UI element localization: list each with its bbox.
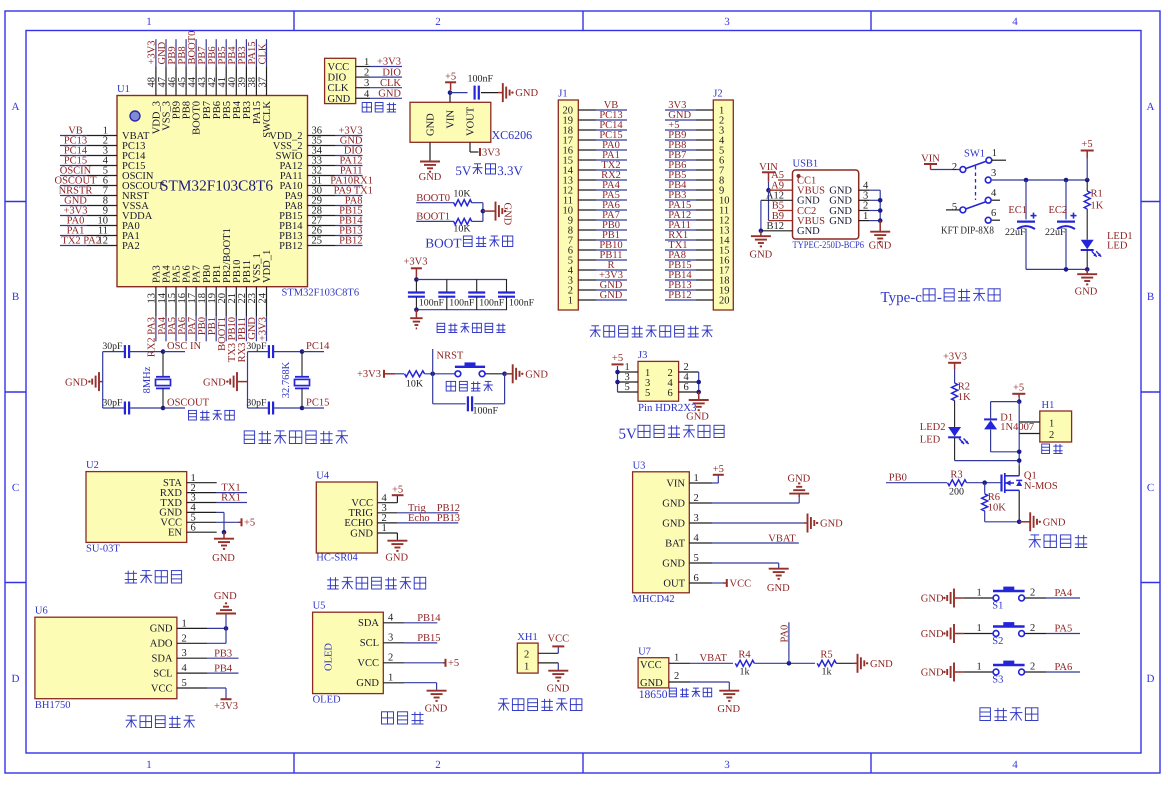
- svg-text:PA2: PA2: [122, 241, 140, 252]
- svg-text:CLK: CLK: [328, 83, 349, 94]
- svg-text:4: 4: [1012, 759, 1018, 771]
- wire LED2 to bus: [954, 438, 956, 461]
- U3 VIN to +5: [712, 482, 718, 484]
- bottom bus: [1026, 268, 1087, 270]
- U6 SDA wire: [207, 657, 239, 659]
- svg-text:1: 1: [524, 662, 529, 673]
- U3 GND3 wire: [712, 522, 804, 524]
- svg-text:GND: GND: [515, 88, 538, 99]
- U1 right pin 33 PA12: [308, 165, 336, 167]
- resistor R4 1k: [735, 660, 754, 666]
- svg-text:4: 4: [1012, 16, 1018, 28]
- svg-text:H1: H1: [1042, 400, 1055, 411]
- svg-text:10K: 10K: [988, 503, 1007, 514]
- svg-text:GND: GND: [212, 553, 235, 564]
- filter cap bus top: [416, 279, 507, 281]
- connector J3 body: [638, 361, 679, 401]
- svg-text:5V: 5V: [455, 163, 472, 178]
- H1 pins: [1019, 421, 1040, 423]
- U3 OUT wire: [712, 582, 723, 584]
- wire cap to gnd: [481, 92, 498, 94]
- module U2 SU-03T body: [86, 472, 187, 543]
- wire common: [482, 203, 484, 222]
- svg-text:1: 1: [364, 57, 369, 68]
- svg-text:C: C: [12, 482, 19, 494]
- svg-text:J1: J1: [558, 89, 567, 100]
- svg-text:1: 1: [674, 653, 679, 664]
- svg-text:4: 4: [694, 533, 700, 544]
- U3 GND2 wire: [712, 502, 799, 504]
- wire xtal left rail: [102, 352, 104, 408]
- U1 bottom pin 13 PA3: [155, 287, 157, 317]
- svg-text:2: 2: [435, 16, 441, 28]
- wire to S1: [964, 597, 993, 599]
- svg-text:XH1: XH1: [517, 632, 537, 643]
- ground (U7): [719, 690, 739, 692]
- wire Echo: [397, 522, 458, 524]
- U1 right pin 34 SWIO: [308, 155, 336, 157]
- capacitor 30pF top: [248, 351, 269, 353]
- switch SW1 KFT DIP-8X8: [960, 167, 966, 173]
- U1 top pin 39 PB3: [245, 66, 247, 95]
- U1 right pin 31 PA10: [308, 185, 336, 187]
- power port +5 (U2): [241, 518, 243, 526]
- svg-text:GND: GND: [1075, 287, 1098, 298]
- wire PA0 riser: [788, 622, 790, 663]
- svg-text:+5: +5: [392, 484, 403, 495]
- wire LED1 to bus: [1086, 250, 1088, 269]
- svg-text:GND: GND: [640, 678, 663, 689]
- svg-text:1: 1: [977, 588, 982, 599]
- svg-text:32.768K: 32.768K: [281, 361, 292, 398]
- svg-text:PA4: PA4: [1055, 588, 1073, 599]
- svg-text:PB12: PB12: [668, 290, 691, 301]
- svg-text:TX2 PA2: TX2 PA2: [61, 236, 101, 247]
- wire U2 GND pin4: [217, 511, 224, 513]
- wire to S3: [964, 671, 993, 673]
- diode D1 1N4007 branch: [991, 401, 1020, 403]
- J3 right bus: [698, 372, 700, 398]
- svg-text:2: 2: [952, 162, 957, 173]
- svg-text:PC14: PC14: [306, 341, 330, 352]
- svg-text:+5: +5: [1081, 139, 1092, 150]
- svg-text:+3V3: +3V3: [403, 257, 427, 268]
- wire B12 riser: [760, 200, 762, 231]
- svg-text:100nF: 100nF: [468, 74, 494, 85]
- U1 left pin 11 PA1: [87, 235, 117, 237]
- wire NRST: [432, 349, 434, 374]
- svg-text:R6: R6: [988, 492, 1000, 503]
- resistor R2 1K: [952, 383, 958, 401]
- ground (USB right): [879, 221, 881, 231]
- U1 top pin 42 PB6: [215, 66, 217, 95]
- U1 right pin 30 PA9: [308, 195, 336, 197]
- U1 right pin 36 VDD_2: [308, 135, 336, 137]
- svg-text:2: 2: [674, 671, 679, 682]
- U1 right pin 26 PB13: [308, 235, 336, 237]
- svg-text:3: 3: [694, 513, 699, 524]
- svg-text:ADO: ADO: [150, 639, 173, 650]
- U1 top pin 47 VSS_3: [165, 66, 167, 95]
- connector XH1 body: [517, 643, 538, 673]
- button S1: [1003, 587, 1014, 591]
- resistor R6 10K: [984, 483, 986, 494]
- caption chaoshengboceju mokuai: [327, 579, 339, 581]
- svg-text:25: 25: [312, 236, 323, 247]
- caption xinpian lvbo dianrong: [437, 323, 445, 332]
- svg-text:2: 2: [1030, 662, 1035, 673]
- svg-text:SDA: SDA: [151, 654, 172, 665]
- svg-text:3V3: 3V3: [482, 147, 500, 158]
- wire S3 to PA6: [1025, 671, 1046, 673]
- LED1: [1081, 240, 1094, 250]
- svg-text:10K: 10K: [453, 188, 471, 199]
- connector J2 body: [713, 100, 733, 310]
- wire button right: [485, 373, 505, 375]
- svg-text:1: 1: [568, 296, 573, 307]
- svg-text:22uF: 22uF: [1045, 227, 1066, 238]
- svg-text:GND: GND: [797, 226, 820, 237]
- svg-text:3.3V: 3.3V: [497, 163, 523, 178]
- svg-text:PA5: PA5: [1055, 624, 1073, 635]
- svg-text:LED2: LED2: [920, 422, 946, 433]
- svg-text:22uF: 22uF: [1005, 227, 1026, 238]
- svg-text:+3V3: +3V3: [943, 352, 967, 363]
- svg-text:GND: GND: [525, 369, 548, 380]
- svg-text:VCC: VCC: [328, 62, 350, 73]
- U1 bottom pin 14 PA4: [165, 287, 167, 317]
- capacitor 100nF filter 2: [446, 280, 448, 293]
- U4 GND drop: [396, 533, 398, 540]
- svg-text:GND: GND: [426, 113, 437, 136]
- svg-text:MHCD42: MHCD42: [633, 594, 675, 605]
- svg-text:DIO: DIO: [328, 73, 347, 84]
- resistor R1 1K: [1086, 180, 1088, 191]
- svg-text:2: 2: [1030, 588, 1035, 599]
- junction: [448, 90, 453, 95]
- svg-text:NRST: NRST: [437, 351, 464, 362]
- module U4 HC-SR04 body: [316, 482, 377, 553]
- wire VIN pin: [449, 93, 451, 103]
- svg-text:CLK: CLK: [380, 78, 401, 89]
- svg-text:1K: 1K: [1091, 201, 1104, 212]
- svg-text:100nF: 100nF: [509, 298, 535, 309]
- crystal 8MHz: [162, 352, 164, 377]
- resistor 10K (BOOT1): [454, 218, 472, 224]
- wire U2 TX1: [217, 492, 247, 494]
- svg-text:OUT: OUT: [663, 578, 685, 589]
- svg-text:GND: GND: [820, 519, 843, 530]
- junction: [414, 307, 419, 312]
- U6 ADO wire: [207, 642, 226, 644]
- svg-text:OLED: OLED: [313, 694, 341, 705]
- svg-text:SW1: SW1: [964, 149, 985, 160]
- svg-text:PC15: PC15: [306, 397, 329, 408]
- junction bottom: [300, 406, 305, 411]
- caption fuwei dianlu: [446, 381, 455, 391]
- svg-text:1: 1: [182, 618, 187, 629]
- capacitor EC1 22uF: [1025, 180, 1027, 220]
- U1 bottom pin 23 VSS_1: [255, 287, 257, 317]
- svg-text:U6: U6: [35, 606, 48, 617]
- capacitor 30pF top: [103, 351, 125, 353]
- svg-text:30pF: 30pF: [246, 397, 267, 408]
- SW1 stubs: [992, 159, 1006, 161]
- filter cap bus bottom: [416, 309, 507, 311]
- svg-text:3: 3: [364, 78, 369, 89]
- svg-text:EC1: EC1: [1008, 205, 1027, 216]
- junction +5 bus: [1017, 399, 1022, 404]
- svg-text:GND: GND: [869, 241, 892, 252]
- U1 bottom pin 17 PA7: [195, 287, 197, 317]
- caption shuchu kongzhi: [1034, 535, 1036, 548]
- holder U7 18650 body: [638, 658, 669, 688]
- module U3 MHCD42 body: [633, 472, 690, 593]
- svg-text:VDD_1: VDD_1: [262, 250, 273, 283]
- op U1 STM32F103C8T6 body: [117, 96, 308, 287]
- svg-text:D: D: [12, 673, 20, 685]
- U1 top pin 43 PB7: [205, 66, 207, 95]
- svg-text:U1: U1: [117, 84, 130, 95]
- svg-text:GND: GND: [150, 624, 173, 635]
- svg-text:PB12: PB12: [279, 241, 302, 252]
- svg-text:GND: GND: [419, 172, 442, 183]
- U1 left pin 7 NRST: [87, 195, 117, 197]
- svg-text:VIN: VIN: [666, 478, 685, 489]
- svg-text:5: 5: [952, 202, 957, 213]
- svg-text:1: 1: [863, 211, 868, 222]
- ground (U4): [387, 540, 407, 542]
- svg-text:GND: GND: [378, 89, 401, 100]
- svg-text:PB4: PB4: [214, 663, 233, 674]
- svg-text:U2: U2: [86, 460, 99, 471]
- svg-text:37: 37: [257, 77, 268, 88]
- wire U2 VCC pin5: [217, 521, 239, 523]
- U1 left pin 1 VBAT: [87, 135, 117, 137]
- LED2: [948, 427, 961, 437]
- wire U2 RX1: [217, 502, 247, 504]
- XH1 pin1 wire: [538, 662, 558, 664]
- svg-text:Echo: Echo: [408, 513, 430, 524]
- svg-text:2: 2: [1049, 430, 1054, 441]
- svg-text:U4: U4: [316, 471, 330, 482]
- junction U2 EN: [222, 530, 227, 535]
- svg-text:GND: GND: [750, 250, 773, 261]
- capacitor 100nF (reset): [467, 396, 469, 411]
- XC6206 GND pin wire: [429, 142, 431, 161]
- svg-text:100nF: 100nF: [449, 298, 475, 309]
- ground symbol: [420, 161, 440, 163]
- wire S2 to PA5: [1025, 633, 1046, 635]
- svg-text:10K: 10K: [406, 379, 424, 390]
- power port +3V3 (U6): [221, 698, 232, 700]
- ground (XH1): [548, 670, 568, 672]
- svg-text:100nF: 100nF: [479, 298, 505, 309]
- connector J1 body: [558, 100, 578, 310]
- U1 bottom pin 20 PB2/BOOT1: [225, 287, 227, 317]
- U1 top pin 41 PB5: [225, 66, 227, 95]
- wire to S2: [964, 633, 993, 635]
- U1 bottom pin 22 PB11: [245, 287, 247, 317]
- svg-text:+3V3: +3V3: [257, 317, 268, 341]
- svg-text:CLK: CLK: [257, 43, 268, 64]
- U5 VCC wire: [404, 662, 443, 664]
- svg-text:+5: +5: [612, 353, 623, 364]
- resistor 10K (reset): [405, 371, 425, 377]
- svg-text:VOUT: VOUT: [466, 106, 477, 136]
- U1 bottom pin 24 VDD_1: [266, 287, 268, 317]
- caption danpianji yinjiao waiyin paizhen: [594, 326, 596, 337]
- svg-text:VBAT: VBAT: [768, 533, 796, 544]
- svg-text:GND: GND: [829, 216, 852, 227]
- capacitor 100nF filter 4: [506, 280, 508, 293]
- capacitor 100nF (reg input): [474, 86, 476, 100]
- svg-text:1: 1: [146, 759, 152, 771]
- U1 left pin 2 PC13: [87, 145, 117, 147]
- svg-text:VCC: VCC: [548, 634, 570, 645]
- U1 top pin 48 VDD_3: [155, 66, 157, 95]
- svg-text:GND: GND: [662, 498, 685, 509]
- connector USB1 body: [793, 170, 859, 239]
- svg-text:SCL: SCL: [360, 638, 379, 649]
- svg-text:GND: GND: [921, 667, 944, 678]
- svg-text:+3V3: +3V3: [377, 57, 401, 68]
- U1 right pin 29 PA8: [308, 205, 336, 207]
- svg-text:VIN: VIN: [921, 154, 940, 165]
- svg-text:3: 3: [991, 168, 996, 179]
- connector H1 body: [1040, 411, 1072, 442]
- svg-text:PB13: PB13: [437, 513, 460, 524]
- capacitor 100nF filter 1: [415, 280, 417, 293]
- wire A9 from VIN: [766, 188, 771, 193]
- power ground bar (reset): [512, 364, 514, 383]
- svg-text:GND: GND: [717, 704, 740, 715]
- svg-text:3: 3: [388, 633, 393, 644]
- svg-text:GND: GND: [65, 377, 88, 388]
- power port +5 (U5): [445, 659, 447, 667]
- wire A5: [778, 179, 793, 181]
- svg-text:100nF: 100nF: [473, 406, 499, 417]
- svg-text:S3: S3: [992, 675, 1003, 686]
- svg-text:EC2: EC2: [1049, 205, 1068, 216]
- svg-text:VCC: VCC: [730, 578, 752, 589]
- power port 3V3: [479, 148, 481, 156]
- svg-text:2: 2: [524, 650, 529, 661]
- U6 VCC wire: [207, 687, 226, 689]
- caption danpianji zuixiao xitong: [244, 431, 254, 444]
- svg-text:PB12: PB12: [339, 236, 362, 247]
- junction: [481, 209, 486, 214]
- U1 pin1 marker dot: [130, 111, 140, 121]
- U1 top pin 44 BOOT0: [195, 66, 197, 95]
- svg-text:SU-03T: SU-03T: [86, 544, 120, 555]
- U1 right pin 28 PB15: [308, 215, 336, 217]
- svg-text:GND: GND: [356, 678, 379, 689]
- capacitor 30pF bottom: [248, 407, 269, 409]
- svg-text:PB3: PB3: [214, 648, 232, 659]
- svg-text:S1: S1: [992, 601, 1003, 612]
- svg-text:VCC: VCC: [640, 660, 662, 671]
- svg-text:2: 2: [435, 759, 441, 771]
- ground (U5): [427, 690, 447, 692]
- U6 GND wire: [207, 627, 226, 629]
- ground (USB left): [760, 231, 762, 236]
- U4 VCC riser to +5: [396, 495, 398, 503]
- U3 GND5 wire: [712, 562, 779, 564]
- svg-text:+3V3: +3V3: [214, 701, 238, 712]
- svg-text:LED: LED: [920, 435, 941, 446]
- U5 GND wire: [404, 682, 437, 684]
- power ground bar (out ctl): [1019, 521, 1030, 523]
- ground (J3): [698, 392, 700, 399]
- svg-text:8MHz: 8MHz: [142, 366, 153, 393]
- U1 top pin 37 SWCLK: [266, 66, 268, 95]
- svg-text:+5: +5: [448, 658, 459, 669]
- U1 left pin 12 PA2: [87, 245, 117, 247]
- svg-text:1: 1: [146, 16, 152, 28]
- U1 top pin 45 PB8: [185, 66, 187, 95]
- U1 left pin 9 VDDA: [87, 215, 117, 217]
- svg-text:GND: GND: [547, 684, 570, 695]
- svg-text:SWCLK: SWCLK: [262, 101, 273, 138]
- main vertical bus: [1018, 402, 1020, 466]
- svg-text:GND: GND: [870, 659, 893, 670]
- svg-text:2: 2: [388, 653, 393, 664]
- svg-text:XC6206: XC6206: [492, 128, 533, 142]
- svg-text:1: 1: [992, 148, 997, 159]
- svg-text:1: 1: [977, 662, 982, 673]
- resistor R5 1k: [817, 660, 836, 666]
- svg-text:5: 5: [182, 678, 187, 689]
- svg-text:GND: GND: [385, 553, 408, 564]
- svg-text:2: 2: [694, 493, 699, 504]
- wire S1 to PA4: [1025, 597, 1046, 599]
- power ground bar: [502, 83, 504, 102]
- U5 SDA wire: [404, 622, 437, 624]
- svg-text:30pF: 30pF: [246, 341, 267, 352]
- svg-text:2: 2: [1030, 623, 1035, 634]
- svg-text:USB1: USB1: [793, 159, 819, 170]
- svg-text:R2: R2: [958, 382, 970, 393]
- svg-text:SDA: SDA: [358, 618, 379, 629]
- junction bottom: [161, 406, 166, 411]
- wire BOOT0: [416, 202, 454, 204]
- junction B12: [759, 229, 764, 234]
- svg-text:PA0: PA0: [779, 625, 790, 643]
- svg-text:18650: 18650: [639, 689, 668, 701]
- XH1 pin2 wire: [538, 652, 558, 654]
- caption xianshiping: [382, 712, 394, 724]
- svg-text:3: 3: [724, 16, 730, 28]
- svg-text:R3: R3: [950, 469, 962, 480]
- U1 left pin 8 VSSA: [87, 205, 117, 207]
- svg-text:1: 1: [977, 623, 982, 634]
- svg-text:4: 4: [364, 89, 370, 100]
- U1 left pin 3 PC14: [87, 155, 117, 157]
- svg-text:R1: R1: [1091, 189, 1103, 200]
- button S3: [1003, 661, 1014, 665]
- svg-text:STM32F103C8T6: STM32F103C8T6: [160, 178, 273, 195]
- U1 bottom pin 16 PA6: [185, 287, 187, 317]
- svg-text:GND: GND: [767, 583, 790, 594]
- svg-text:GND: GND: [328, 94, 351, 105]
- svg-text:N-MOS: N-MOS: [1024, 481, 1058, 492]
- svg-text:GND: GND: [921, 629, 944, 640]
- svg-text:GND: GND: [600, 290, 623, 301]
- svg-text:EN: EN: [168, 528, 182, 539]
- svg-text:BH1750: BH1750: [35, 700, 71, 711]
- power port VCC (U3): [726, 579, 728, 587]
